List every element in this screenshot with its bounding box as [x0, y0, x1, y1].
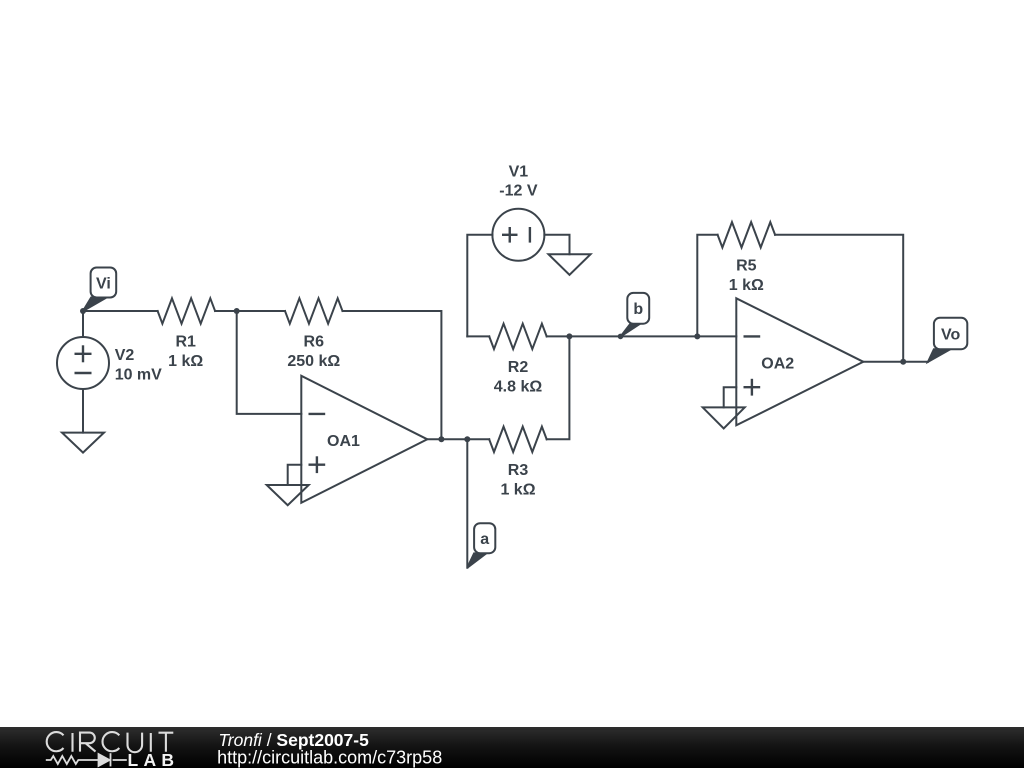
junction node B — [694, 333, 700, 339]
svg-text:R3: R3 — [508, 462, 529, 479]
wire V1 right to ground — [544, 235, 569, 255]
flag b — [621, 293, 650, 337]
wire OA2 output — [863, 361, 928, 363]
wire V2 top — [82, 311, 84, 337]
wire R3 to corner up — [547, 336, 570, 439]
op-amp OA1 — [301, 376, 427, 503]
wire to flag a — [466, 439, 468, 567]
junction flag b attach — [618, 334, 624, 340]
op-amp OA2 — [736, 298, 863, 425]
svg-text:R5: R5 — [736, 258, 757, 275]
svg-text:b: b — [633, 301, 643, 318]
ground (V1) — [549, 254, 591, 274]
svg-text:R6: R6 — [304, 334, 325, 351]
junction node A — [234, 308, 240, 314]
svg-text:OA1: OA1 — [327, 433, 360, 450]
wire Vi node to R1 — [83, 310, 158, 312]
wire R6 to feedback corner — [343, 311, 442, 439]
svg-text:1 kΩ: 1 kΩ — [729, 277, 764, 294]
resistor R6 — [285, 298, 342, 323]
resistor R5 loop — [697, 235, 717, 337]
svg-text:-12 V: -12 V — [499, 183, 538, 200]
svg-text:1 kΩ: 1 kΩ — [500, 481, 535, 498]
wire OA2 plus to ground — [724, 387, 737, 407]
ground (OA2) — [703, 407, 745, 428]
logo LAB symbol — [46, 753, 127, 766]
voltage source V2 — [57, 337, 109, 389]
svg-text:http://circuitlab.com/c73rp58: http://circuitlab.com/c73rp58 — [217, 748, 442, 768]
svg-text:4.8 kΩ: 4.8 kΩ — [494, 378, 543, 395]
svg-text:Vi: Vi — [96, 275, 111, 292]
junction R2-R3 — [566, 333, 572, 339]
svg-text:10 mV: 10 mV — [115, 366, 162, 383]
junction OA2 output — [900, 359, 906, 365]
wire V1 corner to R2 — [467, 335, 489, 337]
ground (V2) — [62, 433, 104, 453]
resistor R3 — [489, 427, 546, 452]
svg-text:LAB: LAB — [128, 750, 180, 768]
wire node A down to OA1 minus — [237, 311, 302, 414]
flag Vo — [928, 318, 967, 362]
footer bar — [0, 727, 1024, 768]
wire OA1 plus to ground — [288, 465, 302, 485]
svg-text:a: a — [480, 531, 489, 548]
svg-text:V2: V2 — [115, 347, 135, 364]
wire OA1 output — [427, 438, 489, 440]
voltage source V1 — [492, 209, 544, 261]
wire R2 to OA2 minus — [547, 335, 737, 337]
flag a — [467, 523, 495, 568]
svg-text:250 kΩ: 250 kΩ — [287, 353, 340, 370]
wire R1 to R6 — [215, 310, 285, 312]
svg-text:R2: R2 — [508, 359, 529, 376]
wire V1 left down to R2 row — [467, 235, 492, 337]
wire V2 bottom — [82, 389, 84, 433]
junction OA1 output — [438, 436, 444, 442]
svg-text:R1: R1 — [175, 334, 196, 351]
junction dot Vi — [80, 308, 86, 314]
logo CIRCUIT text — [47, 732, 174, 752]
svg-text:1 kΩ: 1 kΩ — [168, 353, 203, 370]
resistor R2 — [489, 324, 546, 349]
svg-text:V1: V1 — [509, 163, 529, 180]
svg-text:OA2: OA2 — [761, 356, 794, 373]
junction flag a — [464, 436, 470, 442]
ground (OA1) — [267, 485, 309, 505]
svg-text:Vo: Vo — [941, 327, 960, 344]
resistor R1 — [158, 298, 215, 323]
flag Vi — [83, 268, 116, 312]
